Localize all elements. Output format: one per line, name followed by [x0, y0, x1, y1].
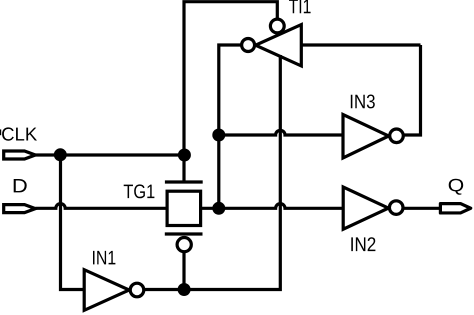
label IN1 [93, 251, 115, 265]
wire node D up to TI1 output corner [219, 45, 242, 135]
output pin Q [440, 204, 470, 213]
TG1 bottom gate wire to node E [182, 252, 185, 289]
wire node C to IN2 input (hop over enable vertical) [219, 204, 343, 209]
transmission gate TG1 : gate wire from node B [182, 155, 185, 182]
label D [14, 179, 27, 192]
inverter IN2 triangle [343, 187, 388, 229]
node B (CLK junction at TG1) [178, 149, 191, 162]
label Q [449, 179, 464, 195]
TI1 output bubble [242, 39, 255, 52]
node D (storage node junction) [212, 129, 225, 142]
wire IN2 output to Q pin [404, 207, 441, 210]
label CLK [2, 127, 37, 140]
IN1 output bubble [130, 283, 144, 297]
input pin CLK [4, 151, 36, 159]
TG1 body box [167, 191, 201, 225]
wire node A down to IN1 input [61, 155, 85, 290]
inverter IN1 triangle [84, 270, 129, 311]
node C (TG1 output junction) [212, 202, 225, 215]
wire node C up to node D [217, 135, 220, 208]
IN2 output bubble [389, 201, 403, 215]
input pin D [4, 205, 36, 213]
label TG1 [124, 184, 155, 198]
wire node B up and across to TI1 top enable [184, 2, 277, 155]
label TI1 [289, 0, 311, 13]
TG1 inverting gate bubble [177, 238, 191, 252]
label IN3 [351, 95, 375, 109]
TG1 top gate bar [165, 180, 203, 183]
label IN2 [351, 237, 375, 251]
wire IN1 output to node E [144, 288, 184, 291]
TG1 bottom gate bar [165, 232, 203, 235]
wire TG1 output to node C [200, 207, 219, 210]
TI1 top enable bubble [270, 19, 284, 33]
feedback vertical from IN3 output [405, 45, 421, 135]
wire node D to IN3 input (hop over enable vertical) [219, 130, 343, 135]
IN3 output bubble [390, 129, 404, 143]
node A (CLK junction) [54, 148, 67, 161]
clipped mark at left edge [0, 129, 1, 135]
tri-state inverter TI1 triangle (points left) [256, 25, 302, 66]
node E (inverted clock junction) [178, 283, 191, 296]
inverter IN3 triangle [343, 115, 389, 158]
TI1 input wire from feedback [301, 43, 420, 46]
TI1 bottom enable wire down to bottom row [184, 55, 280, 290]
wire node A to node B [61, 153, 185, 156]
wire CLK pin to node A [35, 153, 60, 156]
wire D pin to TG1 input (hop over CLK vertical) [35, 204, 167, 209]
